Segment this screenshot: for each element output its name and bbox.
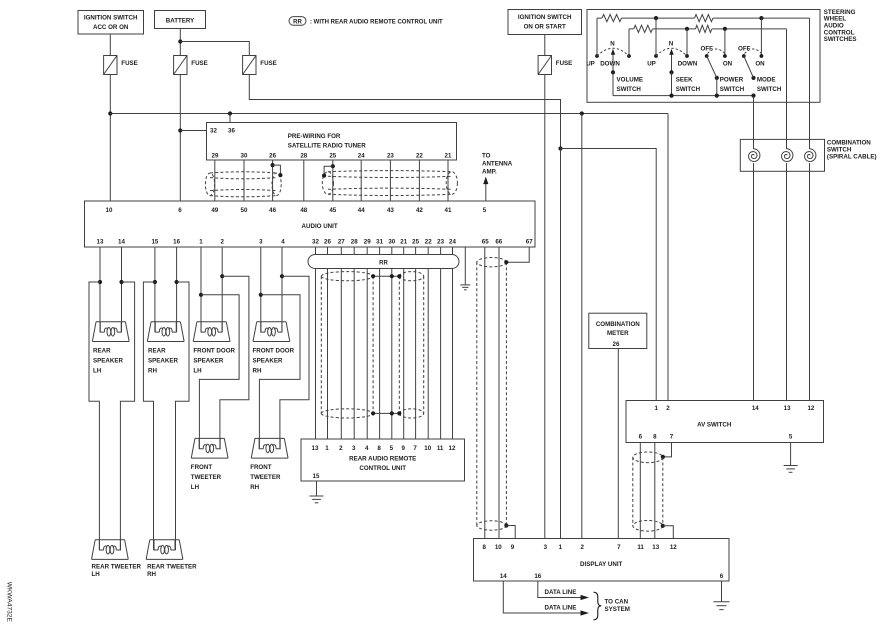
svg-text:SPEAKER: SPEAKER bbox=[193, 358, 223, 365]
wire: seek DOWN terminal riser bbox=[686, 29, 688, 56]
svg-text:FUSE: FUSE bbox=[260, 60, 277, 67]
wire: audio unit to rear audio remote pin 9 bbox=[403, 247, 405, 439]
svg-text:FUSE: FUSE bbox=[556, 60, 573, 67]
fuse F4 (ignition start) bbox=[538, 56, 551, 75]
wire: audio unit to rear audio remote pin 13 bbox=[315, 247, 317, 439]
wire: volume DOWN terminal riser bbox=[628, 29, 630, 56]
volume switch wiper arrow bbox=[612, 54, 614, 72]
svg-text:1: 1 bbox=[654, 405, 658, 412]
svg-text:N: N bbox=[669, 40, 674, 47]
svg-text:32: 32 bbox=[312, 239, 319, 246]
display unit box bbox=[474, 539, 730, 582]
svg-text:8: 8 bbox=[653, 434, 657, 441]
svg-text:11: 11 bbox=[437, 445, 444, 452]
wire: fuse F3 down/right/down to junction node B+ bbox=[249, 75, 560, 149]
wire: audio unit to rear audio remote pin 3 bbox=[353, 247, 355, 439]
svg-text:VOLUME: VOLUME bbox=[617, 77, 643, 84]
svg-text:DATA LINE: DATA LINE bbox=[545, 589, 577, 596]
svg-text:3: 3 bbox=[352, 445, 356, 452]
svg-text:DOWN: DOWN bbox=[600, 61, 620, 68]
ignition switch (ACC or ON) box bbox=[78, 11, 144, 35]
svg-text:ANTENNA: ANTENNA bbox=[482, 161, 513, 168]
svg-text:UP: UP bbox=[647, 61, 656, 68]
wire: audio pin 3 to front door speaker RH (+) bbox=[260, 247, 262, 332]
svg-text:21: 21 bbox=[400, 239, 407, 246]
svg-text:(SPIRAL CABLE): (SPIRAL CABLE) bbox=[827, 153, 877, 160]
svg-text:TWEETER: TWEETER bbox=[250, 474, 281, 481]
svg-text:13: 13 bbox=[652, 544, 659, 551]
svg-text:SWITCH: SWITCH bbox=[720, 86, 745, 93]
svg-text:BATTERY: BATTERY bbox=[166, 18, 195, 25]
wire: fuse F2 down to audio unit pin 6 bbox=[179, 75, 181, 202]
wire: rear speaker RH tap to rear tweeter RH (-) bbox=[176, 282, 190, 550]
svg-text:2: 2 bbox=[339, 445, 343, 452]
wire: rear speaker LH tap to rear tweeter LH (+) bbox=[89, 282, 100, 550]
svg-text:45: 45 bbox=[329, 207, 336, 214]
seek switch wiper arrow bbox=[671, 54, 673, 72]
svg-text:SEEK: SEEK bbox=[676, 77, 693, 84]
ignition switch (ON or START) box bbox=[508, 10, 582, 35]
svg-text:14: 14 bbox=[118, 239, 125, 246]
svg-text:SWITCH: SWITCH bbox=[676, 86, 701, 93]
svg-text:24: 24 bbox=[449, 239, 456, 246]
svg-text:CONTROL UNIT: CONTROL UNIT bbox=[359, 465, 406, 472]
svg-text:10: 10 bbox=[495, 544, 502, 551]
wire: seek UP terminal riser bbox=[655, 18, 657, 56]
svg-text:RR: RR bbox=[293, 20, 302, 26]
combination meter box bbox=[589, 313, 647, 348]
switch common bus wire bbox=[613, 95, 754, 97]
wire: mode ON terminal riser bbox=[760, 18, 762, 56]
svg-text:13: 13 bbox=[312, 445, 319, 452]
svg-text:12: 12 bbox=[449, 445, 456, 452]
AV switch box bbox=[626, 401, 824, 443]
svg-text:9: 9 bbox=[511, 544, 515, 551]
resistor ladder line 1 (top) bbox=[597, 17, 602, 19]
svg-text:SATELLITE RADIO TUNER: SATELLITE RADIO TUNER bbox=[288, 143, 366, 150]
svg-text:66: 66 bbox=[495, 239, 502, 246]
svg-text:15: 15 bbox=[313, 473, 320, 480]
junction: ACC rail to display unit pin 2 bbox=[580, 111, 584, 115]
svg-text:REAR TWEETER: REAR TWEETER bbox=[92, 564, 142, 571]
svg-text:ON OR START: ON OR START bbox=[524, 24, 566, 31]
svg-text:5: 5 bbox=[390, 445, 394, 452]
svg-text:5: 5 bbox=[483, 207, 487, 214]
resistor R1 bbox=[602, 15, 622, 22]
front door speaker LH symbol bbox=[193, 322, 230, 342]
wire: battery rail down to display unit pin 1 bbox=[560, 149, 562, 539]
shield cable B around rear-remote wires 9/7 (dashed) bbox=[399, 272, 423, 418]
svg-text:14: 14 bbox=[752, 405, 759, 412]
svg-text:WKWA4732E: WKWA4732E bbox=[6, 582, 13, 623]
svg-text:REAR TWEETER: REAR TWEETER bbox=[147, 564, 197, 571]
shield cable (right, wires 45/44/43/42/41) bbox=[322, 171, 457, 196]
wire: rear audio remote pin 15 to ground bbox=[316, 481, 318, 496]
wire: power ON terminal riser bbox=[724, 29, 726, 56]
fuse F3 (battery) bbox=[243, 56, 256, 75]
wire: audio pin 14 to rear speaker LH (-) bbox=[121, 247, 123, 332]
svg-text:: WITH REAR AUDIO REMOTE CONTR: : WITH REAR AUDIO REMOTE CONTROL UNIT bbox=[310, 20, 443, 26]
svg-text:ACC OR ON: ACC OR ON bbox=[93, 24, 129, 31]
svg-text:50: 50 bbox=[241, 207, 248, 214]
wire: audio pin 4 to front door speaker RH (-) bbox=[281, 247, 283, 332]
junction: battery branch to fuse F3 bbox=[178, 39, 182, 43]
arrow to antenna amp bbox=[483, 177, 488, 185]
svg-text:AMP.: AMP. bbox=[482, 169, 497, 176]
junction dots rear speaker LH taps bbox=[98, 280, 102, 284]
wire: audio unit to rear audio remote pin 1 bbox=[327, 247, 329, 439]
svg-text:30: 30 bbox=[241, 153, 248, 160]
svg-text:PRE-WIRING FOR: PRE-WIRING FOR bbox=[288, 133, 341, 140]
wire: audio pin 2 to front door speaker LH (-) bbox=[221, 247, 223, 332]
svg-text:29: 29 bbox=[212, 153, 219, 160]
svg-text:REAR: REAR bbox=[93, 348, 111, 355]
svg-text:FRONT DOOR: FRONT DOOR bbox=[193, 348, 235, 355]
svg-text:44: 44 bbox=[358, 207, 365, 214]
svg-text:AV SWITCH: AV SWITCH bbox=[697, 421, 732, 428]
svg-text:22: 22 bbox=[416, 153, 423, 160]
svg-text:49: 49 bbox=[211, 207, 218, 214]
svg-text:METER: METER bbox=[607, 330, 629, 337]
wire: audio unit to rear audio remote pin 12 bbox=[452, 247, 454, 439]
svg-text:LH: LH bbox=[92, 571, 101, 578]
wire: pre-wiring 22 to audio 42 bbox=[418, 160, 420, 201]
wire: combination meter pin 26 to display unit pin 7 bbox=[617, 349, 619, 539]
junction dots rear speaker RH taps bbox=[153, 280, 157, 284]
svg-text:SYSTEM: SYSTEM bbox=[605, 606, 630, 613]
svg-text:SWITCHES: SWITCHES bbox=[824, 36, 857, 43]
shield drain link (top): cable A - wire 5 - cable B bbox=[373, 275, 399, 277]
svg-text:48: 48 bbox=[300, 207, 307, 214]
rear speaker RH symbol bbox=[147, 322, 184, 342]
svg-text:26: 26 bbox=[269, 153, 276, 160]
svg-text:26: 26 bbox=[613, 341, 620, 348]
svg-text:26: 26 bbox=[324, 239, 331, 246]
resistor R4 bbox=[696, 25, 712, 32]
wire: rear speaker RH tap to rear tweeter RH (+) bbox=[143, 282, 155, 550]
shield cable around AV wires 6/8 (dashed) bbox=[633, 452, 663, 531]
svg-text:7: 7 bbox=[617, 544, 621, 551]
svg-text:23: 23 bbox=[387, 153, 394, 160]
svg-text:UP: UP bbox=[586, 61, 595, 68]
wire: pre-wiring 23 to audio 43 bbox=[389, 160, 391, 201]
svg-text:1: 1 bbox=[199, 239, 203, 246]
svg-text:DISPLAY UNIT: DISPLAY UNIT bbox=[580, 561, 623, 568]
svg-text:67: 67 bbox=[526, 239, 533, 246]
wire: ACC rail down to display unit pin 2 bbox=[581, 114, 583, 539]
resistor R2 bbox=[695, 15, 714, 22]
wire: audio unit to rear audio remote pin 11 bbox=[440, 247, 442, 439]
shield drain link (bottom): cable A - wire 5 - cable B bbox=[373, 412, 399, 414]
audio unit box bbox=[85, 201, 536, 247]
wire: drop to pre-wiring box top (pin 36) bbox=[229, 114, 231, 123]
wire: ignition ACC box to fuse F1 bbox=[109, 34, 111, 56]
svg-text:15: 15 bbox=[151, 239, 158, 246]
svg-text:FRONT DOOR: FRONT DOOR bbox=[253, 348, 295, 355]
junction: battery feed to pre-wiring pin 32 bbox=[178, 128, 182, 132]
svg-text:2: 2 bbox=[666, 405, 670, 412]
fuse F1 (ignition ACC) bbox=[104, 56, 117, 75]
wire: seek wiper to common bus bbox=[671, 72, 673, 95]
audio unit case ground wire bbox=[464, 247, 466, 285]
svg-text:COMBINATION: COMBINATION bbox=[596, 321, 640, 328]
svg-text:46: 46 bbox=[269, 207, 276, 214]
svg-text:7: 7 bbox=[413, 445, 417, 452]
volume switch contacts and arc bbox=[595, 54, 599, 58]
svg-text:21: 21 bbox=[445, 153, 452, 160]
svg-text:ON: ON bbox=[755, 61, 765, 68]
svg-text:43: 43 bbox=[387, 207, 394, 214]
svg-text:11: 11 bbox=[637, 544, 644, 551]
svg-text:9: 9 bbox=[401, 445, 405, 452]
wire: rear speaker LH tap to rear tweeter LH (-) bbox=[120, 282, 134, 550]
svg-text:TO CAN: TO CAN bbox=[605, 598, 629, 605]
svg-text:DATA LINE: DATA LINE bbox=[545, 605, 577, 612]
wire: front door LH tap to front tweeter LH (-) bbox=[220, 276, 249, 449]
svg-text:29: 29 bbox=[364, 239, 371, 246]
front tweeter LH symbol bbox=[191, 438, 228, 458]
wire: audio unit to rear audio remote pin 10 bbox=[427, 247, 429, 439]
junction + wire: shield drain (bottom) to display unit pin 9 bbox=[504, 523, 508, 527]
junction: pin 67 drain on shield (top) bbox=[504, 260, 508, 264]
shield drain: wire 45 to right cable shield bbox=[331, 164, 335, 168]
svg-text:LH: LH bbox=[93, 368, 102, 375]
svg-text:LH: LH bbox=[191, 484, 200, 491]
shield cable A around rear-remote wires 13/1/2/3/4 (dashed) bbox=[321, 272, 373, 418]
RR connector stadium below audio unit bbox=[308, 255, 459, 269]
wire: pre-wiring 29 to audio 49 bbox=[214, 160, 216, 201]
junction node: battery rail split bbox=[558, 146, 562, 150]
junction dots on ladder lines bbox=[654, 16, 658, 20]
wire: ignition ON/START box to fuse F4 bbox=[544, 35, 546, 56]
svg-text:4: 4 bbox=[281, 239, 285, 246]
wire: audio pin 16 to rear speaker RH (-) bbox=[176, 247, 178, 332]
svg-text:DOWN: DOWN bbox=[678, 61, 698, 68]
wire: display unit pin 6 to ground bbox=[721, 581, 723, 602]
rear audio remote control unit box bbox=[301, 439, 465, 481]
wire: front door LH tap to front tweeter LH (+) bbox=[199, 295, 239, 449]
wire: pre-wiring 28 to audio 48 bbox=[303, 160, 305, 201]
junction dots front door RH taps bbox=[259, 293, 263, 297]
arrowhead data line 1 bbox=[581, 595, 590, 600]
steering wheel audio control switches box bbox=[587, 10, 820, 103]
svg-text:2: 2 bbox=[220, 239, 224, 246]
svg-text:SPEAKER: SPEAKER bbox=[93, 358, 123, 365]
wire: battery box to fuse F2 bbox=[179, 29, 181, 56]
wire: ACC rail end down to AV switch pin 2 bbox=[667, 114, 669, 401]
seek switch contacts and arc bbox=[654, 54, 658, 58]
svg-text:RR: RR bbox=[379, 260, 388, 266]
svg-text:RH: RH bbox=[147, 571, 156, 578]
wire: pre-wiring 25 to audio 45 bbox=[332, 160, 334, 201]
ground symbol (rear audio remote) bbox=[310, 495, 324, 497]
wire: ladder line 2 down to AV switch pin 13 (through spiral cable) bbox=[786, 29, 788, 149]
wire: audio pin 65 to display unit pin 8 bbox=[484, 247, 486, 539]
svg-text:FUSE: FUSE bbox=[191, 60, 208, 67]
wire: power switch common to bus bbox=[716, 78, 718, 96]
audio unit case ground symbol bbox=[460, 284, 470, 286]
svg-text:30: 30 bbox=[388, 239, 395, 246]
resistor ladder line 2 bbox=[629, 28, 634, 30]
wire: volume wiper to common bus bbox=[612, 72, 614, 95]
wire: audio unit to rear audio remote pin 4 bbox=[366, 247, 368, 439]
combination switch (spiral cable) box bbox=[740, 139, 824, 171]
battery box bbox=[155, 11, 206, 29]
wire: pre-wiring 26 to audio 46 bbox=[272, 160, 274, 201]
wire: AV switch pin 6 to display unit pin 11 bbox=[639, 443, 641, 539]
wire: audio pin 15 to rear speaker RH (+) bbox=[154, 247, 156, 332]
rear speaker LH symbol bbox=[92, 322, 129, 342]
svg-text:41: 41 bbox=[445, 207, 452, 214]
ground symbol (AV switch) bbox=[784, 465, 798, 467]
junction dots on common bus bbox=[669, 94, 673, 98]
svg-text:16: 16 bbox=[173, 239, 180, 246]
fuse F2 (battery) bbox=[174, 56, 187, 75]
svg-text:36: 36 bbox=[228, 128, 235, 135]
wire: AV switch pin 5 to ground bbox=[790, 443, 792, 466]
svg-text:28: 28 bbox=[300, 153, 307, 160]
junction: ACC rail to pre-wiring pin 36 bbox=[228, 111, 232, 115]
svg-text:REAR AUDIO REMOTE: REAR AUDIO REMOTE bbox=[349, 456, 416, 463]
svg-text:6: 6 bbox=[178, 207, 182, 214]
svg-text:REAR: REAR bbox=[148, 348, 166, 355]
wire: audio unit to rear audio remote pin 5 bbox=[391, 247, 393, 439]
svg-text:28: 28 bbox=[351, 239, 358, 246]
spiral cable symbol 3 bbox=[805, 149, 816, 162]
svg-text:MODE: MODE bbox=[757, 77, 776, 84]
rear tweeter LH symbol bbox=[92, 540, 129, 560]
wire: audio unit to rear audio remote pin 8 bbox=[379, 247, 381, 439]
junction dots front door LH taps bbox=[199, 293, 203, 297]
svg-text:SPEAKER: SPEAKER bbox=[253, 358, 283, 365]
wire: antenna feed from audio pin 5 bbox=[485, 184, 487, 201]
svg-text:SWITCH: SWITCH bbox=[757, 86, 782, 93]
wire: battery rail to AV switch pin 1 bbox=[561, 149, 657, 401]
svg-text:6: 6 bbox=[720, 573, 724, 580]
wire: audio pin 1 to front door speaker LH (+) bbox=[200, 247, 202, 332]
legend symbol RR bbox=[289, 17, 306, 26]
wire: volume UP terminal riser bbox=[596, 18, 598, 56]
junction + wire: AV cable shield (bottom) to display unit pin 12 bbox=[661, 524, 665, 528]
power switch contacts, lever and arc bbox=[705, 54, 709, 58]
svg-text:7: 7 bbox=[670, 434, 674, 441]
shield cable (left, wires 49/50/46) bbox=[205, 172, 281, 197]
shield drain: wire 46 to left cable shield bbox=[271, 163, 275, 167]
svg-text:24: 24 bbox=[358, 153, 365, 160]
svg-text:3: 3 bbox=[544, 544, 548, 551]
ground symbol (display unit) bbox=[713, 601, 729, 603]
svg-text:6: 6 bbox=[639, 434, 643, 441]
svg-text:ON: ON bbox=[723, 61, 733, 68]
wire: display unit pin 16 data line bbox=[538, 581, 581, 598]
wire: fuse F1 down to audio unit pin 10 bbox=[109, 75, 111, 202]
wire: ladder line 1 down to AV switch pin 12 (through spiral cable) bbox=[809, 18, 811, 149]
wire: fuse F4 down to display unit pin 3 bbox=[544, 75, 546, 539]
svg-text:FUSE: FUSE bbox=[121, 60, 138, 67]
wire: AV switch pin 7 to cable shield drain (top) bbox=[663, 443, 672, 457]
svg-text:8: 8 bbox=[377, 445, 381, 452]
svg-text:10: 10 bbox=[424, 445, 431, 452]
svg-text:23: 23 bbox=[437, 239, 444, 246]
svg-text:SWITCH: SWITCH bbox=[617, 86, 642, 93]
svg-text:RH: RH bbox=[253, 368, 262, 375]
svg-text:12: 12 bbox=[670, 544, 677, 551]
svg-text:14: 14 bbox=[500, 573, 507, 580]
junction on ACC feed at y=113.5 bbox=[108, 111, 112, 115]
wire: branch into pre-wiring box (pin 32) bbox=[180, 130, 206, 132]
wire: battery branch across to fuse F3 bbox=[180, 42, 249, 56]
svg-text:31: 31 bbox=[376, 239, 383, 246]
svg-text:8: 8 bbox=[482, 544, 486, 551]
wire: display unit pin 14 data line bbox=[503, 581, 580, 613]
svg-text:TWEETER: TWEETER bbox=[191, 474, 222, 481]
front door speaker RH symbol bbox=[253, 322, 290, 342]
svg-text:42: 42 bbox=[416, 207, 423, 214]
wire: audio pin 67 to cable shield (drain) bbox=[506, 247, 529, 262]
svg-text:25: 25 bbox=[329, 153, 336, 160]
svg-text:OFF: OFF bbox=[738, 45, 751, 52]
svg-text:AUDIO UNIT: AUDIO UNIT bbox=[302, 223, 338, 230]
svg-text:3: 3 bbox=[259, 239, 263, 246]
svg-text:IGNITION SWITCH: IGNITION SWITCH bbox=[84, 15, 138, 22]
front tweeter RH symbol bbox=[251, 438, 288, 458]
shield cable around wires 65/66 (dashed) bbox=[477, 258, 507, 531]
spiral cable symbol 1 bbox=[749, 149, 760, 162]
wire: pre-wiring 21 to audio 41 bbox=[447, 160, 449, 201]
svg-text:POWER: POWER bbox=[720, 77, 744, 84]
wire: audio pin 66 to display unit pin 10 bbox=[498, 247, 500, 539]
resistor R3 bbox=[634, 25, 653, 32]
svg-text:FRONT: FRONT bbox=[250, 464, 272, 471]
pre-wiring for satellite radio tuner box bbox=[207, 123, 457, 161]
svg-text:27: 27 bbox=[338, 239, 345, 246]
wire: switch common down to AV switch pin 14 (through spiral cable) bbox=[753, 96, 755, 149]
svg-text:65: 65 bbox=[482, 239, 489, 246]
svg-text:25: 25 bbox=[412, 239, 419, 246]
svg-text:LH: LH bbox=[193, 368, 202, 375]
wire: audio unit to rear audio remote pin 2 bbox=[340, 247, 342, 439]
wire: front door RH tap to front tweeter RH (-) bbox=[280, 276, 309, 449]
svg-text:RH: RH bbox=[148, 368, 157, 375]
svg-text:1: 1 bbox=[325, 445, 329, 452]
svg-text:5: 5 bbox=[789, 434, 793, 441]
svg-text:22: 22 bbox=[425, 239, 432, 246]
svg-text:N: N bbox=[610, 40, 615, 47]
wire: pre-wiring 24 to audio 44 bbox=[360, 160, 362, 201]
svg-text:1: 1 bbox=[559, 544, 563, 551]
svg-text:10: 10 bbox=[106, 207, 113, 214]
svg-text:32: 32 bbox=[210, 128, 217, 135]
svg-text:OFF: OFF bbox=[701, 45, 714, 52]
svg-text:IGNITION SWITCH: IGNITION SWITCH bbox=[518, 14, 572, 21]
svg-text:13: 13 bbox=[784, 405, 791, 412]
rear tweeter RH symbol bbox=[146, 540, 183, 560]
wire: pre-wiring 30 to audio 50 bbox=[243, 160, 245, 201]
svg-text:13: 13 bbox=[97, 239, 104, 246]
mode switch contacts, lever and arc bbox=[742, 54, 746, 58]
svg-text:TO: TO bbox=[482, 152, 491, 159]
arrowhead data line 2 bbox=[581, 610, 590, 615]
svg-text:RH: RH bbox=[250, 484, 259, 491]
spiral cable symbol 2 bbox=[782, 149, 793, 162]
svg-text:4: 4 bbox=[365, 445, 369, 452]
svg-text:2: 2 bbox=[580, 544, 584, 551]
svg-text:16: 16 bbox=[534, 573, 541, 580]
svg-text:FRONT: FRONT bbox=[191, 464, 213, 471]
wire: audio unit to rear audio remote pin 7 bbox=[415, 247, 417, 439]
wire: front door RH tap to front tweeter RH (+) bbox=[259, 295, 300, 449]
curly brace to CAN system bbox=[594, 592, 602, 620]
